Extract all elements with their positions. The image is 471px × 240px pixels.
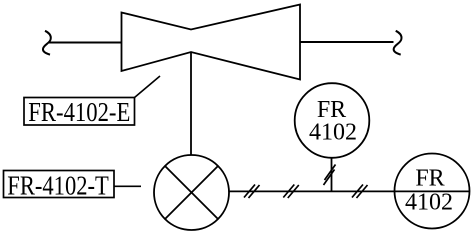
svg-text:FR: FR xyxy=(415,166,444,192)
inlet pipe xyxy=(49,41,122,43)
signal hash on riser xyxy=(324,165,336,186)
wire: turbine outlet to flow element xyxy=(190,52,192,156)
wire: recorder riser to signal line xyxy=(331,157,333,191)
leader line to flow element xyxy=(114,185,141,187)
recorder FR-4102 (panel, top) xyxy=(295,83,370,158)
flow element FR-4102-T (circle with X) xyxy=(154,155,229,230)
svg-text:4102: 4102 xyxy=(309,119,357,145)
right pipe break xyxy=(394,31,402,55)
signal hash mark 2 xyxy=(283,185,299,199)
outlet pipe xyxy=(300,41,394,43)
pneumatic signal line xyxy=(229,190,470,192)
leader line to turbine xyxy=(135,76,161,98)
left pipe break xyxy=(43,31,51,55)
svg-text:FR-4102-E: FR-4102-E xyxy=(28,97,130,127)
instrument tag box FR-4102-E xyxy=(24,98,135,126)
signal hash mark 3 xyxy=(352,185,368,199)
instrument tag box FR-4102-T xyxy=(4,171,115,198)
turbine FR-4102-E xyxy=(122,5,301,80)
svg-text:4102: 4102 xyxy=(405,190,453,216)
svg-text:FR-4102-T: FR-4102-T xyxy=(7,171,109,201)
signal hash mark 1 xyxy=(244,185,260,199)
recorder FR-4102 (field-mounted, right) xyxy=(395,154,470,229)
